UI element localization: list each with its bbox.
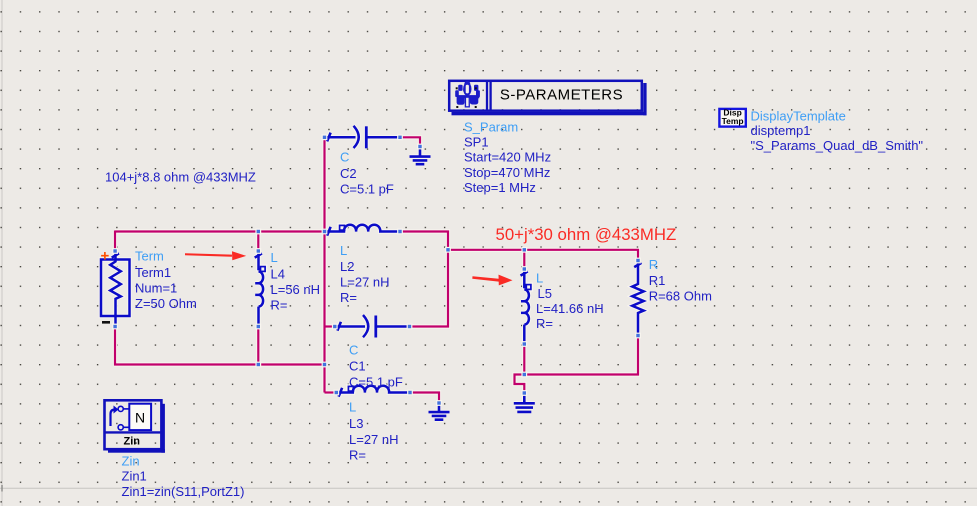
svg-text:L4: L4 (271, 267, 285, 282)
svg-text:Num=1: Num=1 (135, 281, 177, 296)
svg-text:C2: C2 (340, 166, 357, 181)
svg-text:C1: C1 (349, 359, 366, 374)
svg-text:C: C (349, 343, 358, 358)
svg-text:Start=420 MHz: Start=420 MHz (464, 150, 551, 165)
svg-text:R1: R1 (649, 273, 666, 288)
svg-text:L: L (340, 243, 347, 258)
svg-text:50+j*30 ohm @433MHZ: 50+j*30 ohm @433MHZ (496, 225, 677, 244)
svg-text:L: L (271, 250, 278, 265)
svg-text:Zin: Zin (122, 454, 140, 469)
svg-text:104+j*8.8 ohm @433MHZ: 104+j*8.8 ohm @433MHZ (105, 169, 256, 184)
svg-text:R: R (649, 257, 658, 272)
svg-text:L3: L3 (349, 416, 363, 431)
svg-text:Zin1: Zin1 (122, 469, 147, 484)
svg-text:L2: L2 (340, 259, 354, 274)
svg-text:L: L (349, 400, 356, 415)
svg-text:L=27 nH: L=27 nH (349, 432, 399, 447)
svg-text:S_Param: S_Param (464, 120, 518, 135)
svg-text:Zin1=zin(S11,PortZ1): Zin1=zin(S11,PortZ1) (122, 484, 245, 499)
svg-text:C: C (340, 150, 349, 165)
svg-text:N: N (135, 410, 145, 426)
svg-text:+: + (101, 248, 110, 265)
svg-text:disptemp1: disptemp1 (751, 123, 811, 138)
svg-text:SP1: SP1 (464, 135, 489, 150)
svg-text:Term1: Term1 (135, 265, 171, 280)
svg-text:C=5.1 pF: C=5.1 pF (340, 182, 394, 197)
svg-text:R=: R= (340, 290, 357, 305)
svg-text:L=41.66 nH: L=41.66 nH (536, 301, 604, 316)
svg-text:R=: R= (349, 448, 366, 463)
svg-text:"S_Params_Quad_dB_Smith": "S_Params_Quad_dB_Smith" (751, 138, 924, 153)
svg-text:R=68 Ohm: R=68 Ohm (649, 289, 712, 304)
svg-text:Term: Term (135, 249, 164, 264)
svg-text:L: L (536, 270, 543, 285)
svg-text:L=56 nH: L=56 nH (271, 282, 321, 297)
svg-text:R=: R= (271, 298, 288, 313)
svg-text:L5: L5 (538, 286, 552, 301)
svg-text:Stop=470 MHz: Stop=470 MHz (464, 165, 550, 180)
svg-text:Temp: Temp (722, 116, 744, 126)
svg-text:Zin: Zin (124, 436, 141, 448)
svg-text:L=27 nH: L=27 nH (340, 275, 390, 290)
svg-text:R=: R= (536, 316, 553, 331)
svg-text:C=5.1 pF: C=5.1 pF (349, 375, 403, 390)
svg-text:Z=50 Ohm: Z=50 Ohm (135, 296, 197, 311)
svg-text:DisplayTemplate: DisplayTemplate (751, 109, 846, 124)
svg-text:S-PARAMETERS: S-PARAMETERS (500, 86, 623, 103)
svg-text:Step=1 MHz: Step=1 MHz (464, 180, 536, 195)
